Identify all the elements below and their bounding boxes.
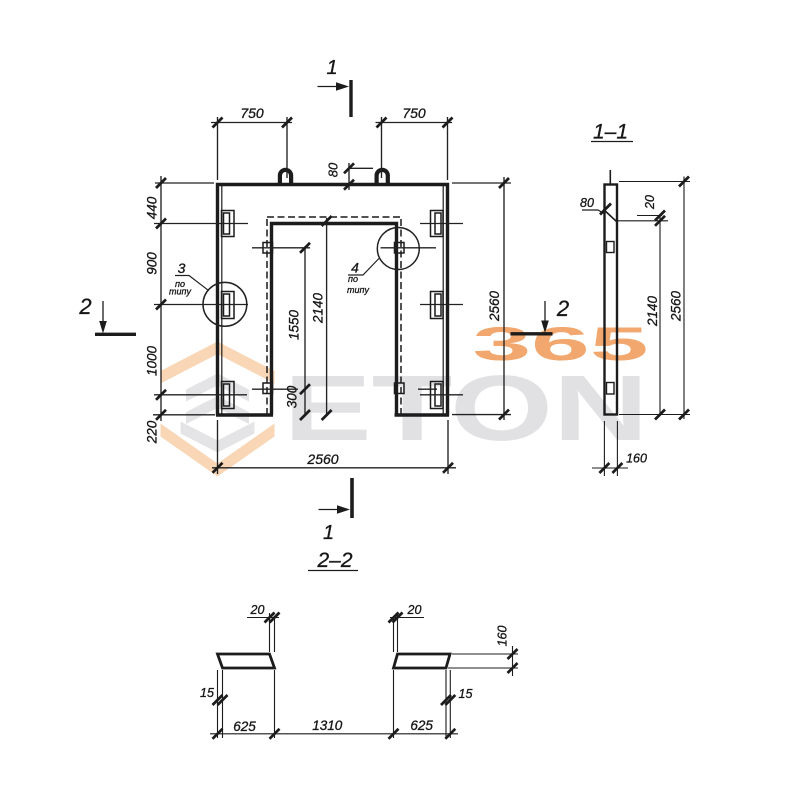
svg-text:1: 1: [326, 57, 337, 79]
svg-text:625: 625: [233, 719, 256, 734]
svg-text:80: 80: [326, 162, 341, 177]
svg-text:160: 160: [496, 626, 510, 647]
svg-text:625: 625: [410, 718, 433, 733]
svg-text:2140: 2140: [645, 295, 660, 327]
svg-text:2: 2: [78, 294, 91, 319]
svg-text:ETON: ETON: [284, 356, 649, 460]
svg-text:типу: типу: [169, 287, 191, 297]
svg-text:1000: 1000: [145, 345, 160, 376]
svg-text:2: 2: [556, 296, 569, 321]
svg-text:2–2: 2–2: [316, 549, 352, 572]
svg-text:по: по: [348, 274, 358, 284]
svg-text:20: 20: [407, 603, 422, 617]
svg-text:160: 160: [626, 452, 647, 466]
svg-text:15: 15: [200, 686, 214, 700]
svg-text:1–1: 1–1: [593, 121, 628, 144]
svg-text:900: 900: [145, 252, 160, 275]
svg-text:80: 80: [580, 196, 594, 210]
svg-text:3: 3: [178, 260, 186, 276]
svg-text:2560: 2560: [487, 290, 502, 322]
svg-text:2140: 2140: [311, 292, 326, 324]
svg-text:2560: 2560: [306, 451, 338, 467]
svg-text:440: 440: [145, 196, 160, 219]
svg-text:750: 750: [240, 105, 264, 121]
svg-text:365: 365: [473, 317, 649, 370]
svg-text:15: 15: [459, 687, 473, 701]
svg-text:1: 1: [323, 522, 334, 544]
svg-text:типу: типу: [347, 285, 369, 295]
svg-text:1310: 1310: [312, 718, 343, 733]
svg-text:20: 20: [643, 195, 657, 210]
svg-text:1550: 1550: [287, 309, 302, 340]
svg-text:20: 20: [250, 603, 265, 617]
svg-text:300: 300: [285, 385, 300, 408]
svg-text:2560: 2560: [669, 290, 684, 322]
svg-text:220: 220: [145, 420, 160, 444]
svg-text:750: 750: [402, 105, 426, 121]
